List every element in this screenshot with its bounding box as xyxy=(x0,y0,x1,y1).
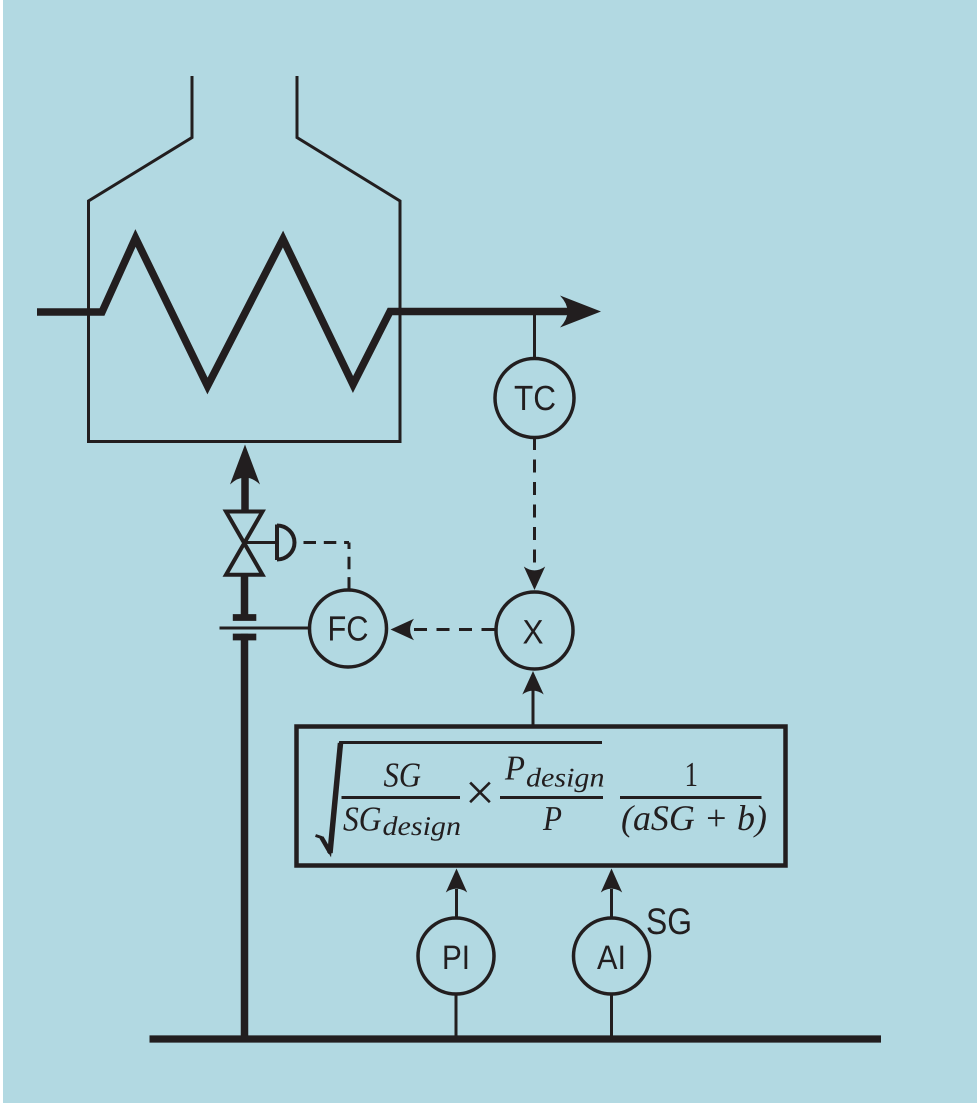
svg-text:P: P xyxy=(542,799,562,838)
fuel pipe into furnace xyxy=(241,476,249,512)
signal FC to actuator xyxy=(304,543,350,589)
numerator P design xyxy=(504,749,604,793)
denominator aSG plus b xyxy=(621,798,767,838)
radical sign xyxy=(316,743,603,854)
svg-text:design: design xyxy=(526,763,605,793)
instrument PI xyxy=(418,918,494,994)
line AI to box xyxy=(610,889,613,919)
TC tap line xyxy=(533,312,536,360)
orifice tap line to FC xyxy=(220,627,311,630)
fraction bar aSG xyxy=(620,796,762,799)
control valve xyxy=(226,512,263,575)
signal TC to X dashed xyxy=(533,437,536,566)
line box to X xyxy=(532,690,535,725)
svg-text:SG: SG xyxy=(646,901,692,942)
multiply sign xyxy=(465,764,495,822)
fuel pipe below valve xyxy=(241,574,249,1039)
arrowhead PI into box xyxy=(446,869,467,893)
instrument TC xyxy=(495,359,574,438)
svg-text:×: × xyxy=(465,764,495,822)
svg-text:X: X xyxy=(523,614,544,652)
numerator SG xyxy=(384,756,422,795)
label SG xyxy=(646,901,692,942)
fraction bar P xyxy=(500,796,603,799)
svg-text:FC: FC xyxy=(328,610,369,649)
furnace outline xyxy=(89,76,401,442)
arrowhead into X top xyxy=(524,567,545,591)
arrowhead into FC xyxy=(391,619,415,640)
signal X to FC dashed xyxy=(414,628,495,631)
svg-text:SG: SG xyxy=(384,756,422,795)
orifice flange lower xyxy=(233,634,256,641)
numerator 1 xyxy=(685,755,699,794)
svg-text:PI: PI xyxy=(442,939,470,977)
svg-text:SG: SG xyxy=(343,800,382,839)
svg-text:(aSG + b): (aSG + b) xyxy=(621,798,767,838)
orifice flange upper xyxy=(233,614,256,621)
bottom fuel header pipe xyxy=(150,1035,882,1042)
formula box xyxy=(297,727,786,866)
denominator SG design xyxy=(343,800,461,842)
instrument X multiplier xyxy=(496,592,573,669)
heater coil with inlet line xyxy=(37,238,576,386)
line AI to pipe xyxy=(610,994,613,1038)
svg-text:TC: TC xyxy=(514,379,556,418)
fraction bar SG xyxy=(342,796,461,799)
valve actuator dome xyxy=(277,525,295,561)
fuel inlet arrowhead xyxy=(230,445,260,485)
instrument AI xyxy=(574,918,650,994)
svg-text:AI: AI xyxy=(597,939,626,977)
line PI to box xyxy=(455,889,458,919)
denominator P xyxy=(542,799,562,838)
line PI to pipe xyxy=(455,994,458,1038)
outlet flow arrowhead xyxy=(560,296,601,328)
instrument FC xyxy=(310,590,387,667)
arrowhead into X bottom xyxy=(522,671,543,695)
svg-text:design: design xyxy=(383,811,462,841)
svg-text:P: P xyxy=(504,749,525,788)
svg-text:1: 1 xyxy=(685,755,699,794)
arrowhead AI into box xyxy=(601,869,622,893)
valve actuator stem xyxy=(245,541,278,544)
